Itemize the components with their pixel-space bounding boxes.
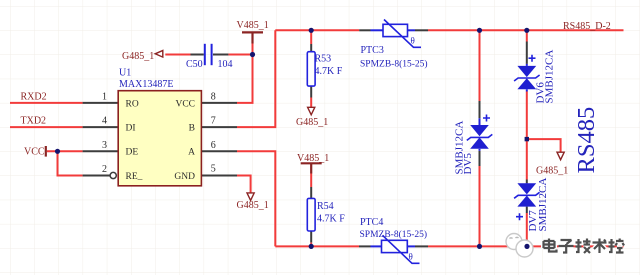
svg-text:C50: C50 <box>186 59 203 70</box>
svg-text:4: 4 <box>102 116 107 127</box>
svg-text:RS485: RS485 <box>573 107 600 174</box>
svg-text:V485_1: V485_1 <box>237 20 269 31</box>
svg-text:G485_1: G485_1 <box>237 200 269 211</box>
svg-text:U1: U1 <box>119 68 131 79</box>
svg-text:4.7K F: 4.7K F <box>317 214 345 225</box>
svg-text:MAX13487E: MAX13487E <box>119 79 173 90</box>
svg-text:DV5: DV5 <box>462 153 474 175</box>
svg-text:θ: θ <box>411 36 415 46</box>
svg-text:RXD2: RXD2 <box>21 92 47 103</box>
svg-text:G485_1: G485_1 <box>122 51 154 62</box>
svg-text:SMBJ12CA: SMBJ12CA <box>544 50 556 104</box>
svg-text:G485_1: G485_1 <box>296 117 328 128</box>
svg-text:R54: R54 <box>317 201 334 212</box>
svg-text:R53: R53 <box>315 54 332 65</box>
svg-text:4.7K F: 4.7K F <box>315 66 343 77</box>
svg-text:2: 2 <box>102 164 107 175</box>
svg-text:6: 6 <box>211 140 216 151</box>
svg-text:B: B <box>189 124 195 134</box>
svg-text:1: 1 <box>102 92 107 103</box>
svg-text:RE_: RE_ <box>126 172 143 182</box>
svg-text:SMBJ12CA: SMBJ12CA <box>537 178 549 232</box>
svg-text:A: A <box>188 148 195 158</box>
svg-text:8: 8 <box>211 92 216 103</box>
svg-text:θ: θ <box>409 252 413 262</box>
svg-text:PTC4: PTC4 <box>360 217 383 228</box>
svg-text:PTC3: PTC3 <box>361 45 384 56</box>
svg-text:7: 7 <box>211 116 216 127</box>
svg-text:RO: RO <box>126 99 139 109</box>
svg-text:VCC: VCC <box>175 99 195 109</box>
svg-text:SPMZB-8(15-25): SPMZB-8(15-25) <box>360 59 428 70</box>
svg-text:DI: DI <box>126 124 136 134</box>
svg-text:GND: GND <box>174 172 195 182</box>
svg-text:RS485_D-2: RS485_D-2 <box>563 21 611 32</box>
svg-text:DE: DE <box>126 148 139 158</box>
svg-text:VCC: VCC <box>24 147 45 158</box>
svg-text:104: 104 <box>218 59 233 70</box>
svg-text:3: 3 <box>102 140 107 151</box>
svg-text:V485_1: V485_1 <box>297 153 329 164</box>
svg-text:SPMZB-8(15-25): SPMZB-8(15-25) <box>360 229 428 240</box>
svg-text:5: 5 <box>211 164 216 175</box>
svg-text:TXD2: TXD2 <box>21 116 47 127</box>
svg-text:G485_1: G485_1 <box>536 166 568 177</box>
